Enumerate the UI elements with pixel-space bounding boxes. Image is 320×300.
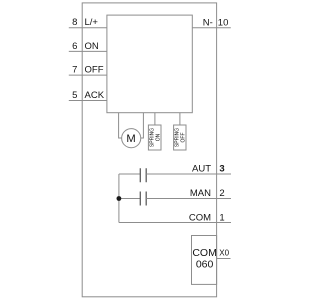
svg-text:COM: COM bbox=[189, 213, 211, 224]
svg-text:X0: X0 bbox=[219, 248, 229, 257]
svg-text:COM: COM bbox=[192, 247, 217, 259]
wire terminal 10 N- bbox=[192, 27, 231, 29]
wire terminal 7 OFF bbox=[69, 74, 107, 76]
spring on rotated text bbox=[150, 128, 162, 147]
wire motor stub left bbox=[119, 113, 122, 138]
wire terminal 6 ON bbox=[69, 50, 107, 52]
contact S1 AUT bars bbox=[140, 168, 146, 182]
svg-text:5: 5 bbox=[72, 90, 77, 101]
svg-text:2: 2 bbox=[219, 188, 224, 199]
svg-text:1: 1 bbox=[219, 213, 224, 224]
contact S2 MAN bars bbox=[140, 192, 146, 206]
wire motor stub right bbox=[141, 113, 144, 138]
motor M1 circle bbox=[122, 129, 141, 148]
svg-text:ON: ON bbox=[85, 41, 99, 52]
svg-text:7: 7 bbox=[72, 65, 77, 76]
wire spring-off stub bbox=[179, 113, 181, 125]
spring off rotated text bbox=[175, 128, 187, 147]
wire terminal 8 L/+ bbox=[69, 27, 107, 29]
wire terminal 5 ACK bbox=[69, 100, 107, 102]
node junction dot bbox=[117, 196, 122, 201]
wire terminal 3 AUT bbox=[146, 173, 231, 175]
svg-text:6: 6 bbox=[72, 41, 77, 52]
svg-text:N-: N- bbox=[203, 17, 213, 28]
svg-text:10: 10 bbox=[218, 17, 229, 28]
svg-text:3: 3 bbox=[219, 164, 224, 175]
svg-text:ON: ON bbox=[155, 133, 161, 141]
svg-text:OFF: OFF bbox=[85, 65, 104, 76]
svg-text:MAN: MAN bbox=[190, 188, 211, 199]
device outline frame bbox=[82, 3, 216, 297]
wire MAN branch left bbox=[119, 198, 140, 200]
svg-text:L/+: L/+ bbox=[85, 17, 99, 28]
svg-text:060: 060 bbox=[196, 258, 214, 270]
spring off box bbox=[174, 125, 186, 150]
wire terminal 2 MAN bbox=[146, 198, 231, 200]
wire terminal X0 bbox=[217, 258, 231, 260]
svg-text:8: 8 bbox=[72, 17, 77, 28]
wire common vertical bus bbox=[118, 174, 120, 223]
wire AUT branch left bbox=[119, 173, 140, 175]
spring on box bbox=[148, 125, 161, 150]
svg-text:ACK: ACK bbox=[85, 90, 105, 101]
COM 060 module box bbox=[192, 236, 217, 285]
svg-text:M: M bbox=[126, 133, 135, 145]
wire terminal 1 COM bbox=[119, 222, 231, 224]
component box U1 bbox=[107, 15, 192, 113]
svg-text:OFF: OFF bbox=[180, 133, 186, 143]
wire spring-on stub bbox=[154, 113, 156, 125]
svg-text:AUT: AUT bbox=[192, 164, 211, 175]
